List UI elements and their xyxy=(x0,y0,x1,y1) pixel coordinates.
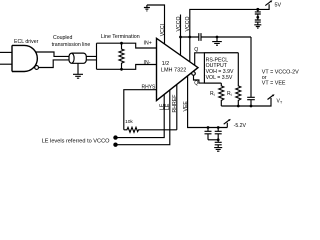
pin LE wire xyxy=(116,95,165,138)
node VCCO pin2 xyxy=(188,36,191,39)
svg-text:t: t xyxy=(231,93,232,97)
resistor termination xyxy=(119,43,124,69)
gate U2 (ECL driver NAND) xyxy=(12,45,37,71)
wire termination left vertical xyxy=(96,43,98,69)
node LE terminal xyxy=(113,135,117,139)
pin LEbar wire xyxy=(116,90,170,145)
node 5V rail junction xyxy=(256,8,259,11)
ground (coax shield) xyxy=(73,74,83,78)
resistor 10k xyxy=(124,127,177,132)
supply tap VT xyxy=(268,95,274,100)
svg-text:1/2: 1/2 xyxy=(162,61,170,67)
svg-text:ECL driver: ECL driver xyxy=(14,39,39,45)
svg-text:LE levels referred to VCCO: LE levels referred to VCCO xyxy=(42,139,110,145)
wire Q output xyxy=(195,53,239,65)
svg-text:Line Termination: Line Termination xyxy=(101,34,140,40)
wire coax shield to ground xyxy=(77,63,79,74)
svg-text:t: t xyxy=(214,93,215,97)
svg-text:VT = VEE: VT = VEE xyxy=(262,80,286,86)
node C1/C2 junction xyxy=(256,16,259,19)
output bubble Qbar xyxy=(192,72,196,76)
svg-text:IN+: IN+ xyxy=(144,41,152,47)
box RS-PECL OUTPUT xyxy=(204,53,238,83)
node LEbar terminal xyxy=(113,143,117,147)
wire Qbar output xyxy=(194,75,222,83)
transmission line left ellipse xyxy=(72,53,74,63)
capacitor C5 (VEE decoupling 2) xyxy=(215,128,222,140)
svg-text:LMH 7322: LMH 7322 xyxy=(161,68,186,74)
capacitor bypass (on VCCO rail) xyxy=(199,33,201,41)
capacitor C4 (VEE decoupling 1) xyxy=(205,128,212,140)
node VEE cap2 xyxy=(217,126,220,129)
wire VCCO rail down to VT cap xyxy=(250,37,252,97)
wire VT rail xyxy=(221,98,271,106)
capacitor C3 (VT decoupling) xyxy=(247,97,255,106)
svg-text:VEE: VEE xyxy=(183,101,189,112)
svg-text:transmission line: transmission line xyxy=(52,42,91,48)
ground (bypass) xyxy=(212,37,222,45)
supply tap -5.2V xyxy=(224,120,230,128)
node termination bottom xyxy=(120,68,123,71)
pin VCCO 1 xyxy=(180,15,182,56)
svg-text:Q: Q xyxy=(194,80,198,86)
wire gate Qbar output to line xyxy=(39,60,97,68)
pin VEE wire to -5.2V rail xyxy=(188,76,228,128)
ground (5V decoupling) xyxy=(254,25,261,28)
pin RHREF xyxy=(176,85,178,130)
supply tap 5V xyxy=(265,1,271,6)
ground (VCCI) xyxy=(144,5,150,11)
node VT cap bottom xyxy=(250,105,253,108)
node VEE cap1 xyxy=(207,126,210,129)
wire VCCO bypass rail xyxy=(181,36,252,38)
wire 5V tap xyxy=(258,4,269,9)
wire gate input 1 xyxy=(0,51,12,53)
capacitor C2 (5V decoupling lower) xyxy=(255,17,261,24)
wire cap common xyxy=(208,139,218,141)
node Rt right bottom xyxy=(237,105,240,108)
wire IN- rail xyxy=(97,65,157,70)
svg-text:LE: LE xyxy=(165,103,171,110)
svg-text:Q: Q xyxy=(194,47,198,53)
wire gate input 2 xyxy=(0,63,12,65)
pin VCCI wire to ground xyxy=(147,5,165,44)
svg-text:RHYS: RHYS xyxy=(142,84,157,90)
resistor Rt left xyxy=(219,83,224,106)
node termination top xyxy=(120,42,123,45)
resistor Rt right (from Q) xyxy=(236,53,241,106)
svg-text:IN-: IN- xyxy=(144,60,151,66)
node VCCO pin1 xyxy=(179,36,182,39)
capacitor C1 (5V decoupling upper) xyxy=(255,9,261,17)
pin VCCO 2 wire to 5V rail xyxy=(190,9,258,61)
ground (VEE decoupling) xyxy=(214,148,222,152)
node cap common xyxy=(217,138,220,141)
svg-text:-5.2V: -5.2V xyxy=(234,123,247,129)
svg-text:RHREF: RHREF xyxy=(172,95,178,113)
svg-text:VT = VCCO-2V: VT = VCCO-2V xyxy=(262,69,299,75)
capacitor C6 (VEE decoupling 3) xyxy=(215,140,222,148)
node bypass ground tap xyxy=(216,36,219,39)
svg-text:VCCI: VCCI xyxy=(160,24,166,36)
svg-text:VCCO: VCCO xyxy=(176,17,182,32)
pin RHYS wire xyxy=(124,90,157,130)
svg-text:VCCO: VCCO xyxy=(185,17,191,32)
svg-text:VOL = 3.5V: VOL = 3.5V xyxy=(206,75,233,81)
transmission line TL1 (coax cylinder) xyxy=(69,53,86,63)
gate inverting bubble xyxy=(35,66,39,70)
svg-text:Coupled: Coupled xyxy=(53,35,72,41)
wire gate Q output to line xyxy=(36,52,97,56)
svg-text:5V: 5V xyxy=(275,3,282,9)
wire IN+ rail xyxy=(97,43,157,48)
op-amp U1 comparator triangle xyxy=(157,38,199,100)
svg-text:10k: 10k xyxy=(125,119,133,125)
